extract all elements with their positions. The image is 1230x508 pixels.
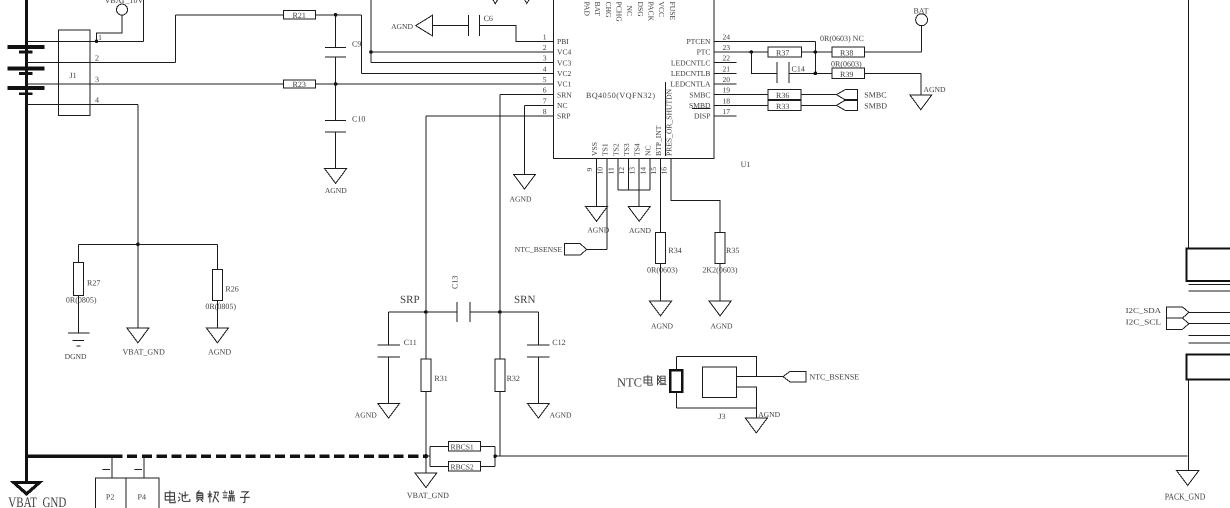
- svg-text:VBAT_GND: VBAT_GND: [8, 495, 66, 508]
- svg-text:0R(0603): 0R(0603): [647, 265, 678, 274]
- svg-text:21: 21: [723, 64, 731, 73]
- svg-text:CHG: CHG: [604, 2, 613, 19]
- svg-text:J3: J3: [718, 412, 725, 421]
- svg-text:AGND: AGND: [208, 348, 231, 357]
- svg-text:NC: NC: [557, 101, 568, 110]
- svg-text:0R(0603): 0R(0603): [831, 59, 862, 68]
- svg-text:TS1: TS1: [601, 143, 610, 156]
- svg-text:2: 2: [95, 54, 99, 63]
- svg-text:VC3: VC3: [557, 58, 572, 67]
- svg-text:15: 15: [649, 167, 658, 175]
- svg-text:R34: R34: [668, 246, 681, 255]
- svg-text:C14: C14: [792, 65, 805, 74]
- svg-text:BQ4050(VQFN32): BQ4050(VQFN32): [586, 91, 655, 100]
- svg-text:19: 19: [723, 86, 731, 95]
- svg-text:AGND: AGND: [355, 411, 377, 420]
- svg-text:R32: R32: [507, 374, 520, 383]
- svg-text:6: 6: [543, 86, 547, 95]
- svg-text:TS2: TS2: [611, 143, 620, 156]
- svg-text:C10: C10: [352, 115, 365, 124]
- svg-text:AGND: AGND: [651, 321, 673, 330]
- svg-text:DGND: DGND: [65, 352, 87, 361]
- svg-text:VBAT_10V: VBAT_10V: [105, 0, 144, 5]
- svg-text:PACK_GND: PACK_GND: [1165, 492, 1206, 502]
- svg-text:R26: R26: [225, 285, 238, 294]
- svg-text:SRP: SRP: [400, 294, 420, 306]
- svg-text:VBAT_GND: VBAT_GND: [123, 348, 165, 357]
- svg-text:10: 10: [596, 167, 605, 175]
- svg-text:R33: R33: [776, 102, 789, 111]
- svg-text:PTC: PTC: [697, 48, 711, 57]
- svg-text:TS3: TS3: [622, 143, 631, 156]
- svg-text:LEDCNTLB: LEDCNTLB: [671, 69, 711, 78]
- svg-text:C12: C12: [552, 338, 565, 347]
- svg-text:R23: R23: [293, 80, 306, 89]
- svg-text:AGND: AGND: [510, 194, 532, 203]
- svg-text:PRES_OR_SHUTDN: PRES_OR_SHUTDN: [665, 88, 674, 156]
- svg-text:R39: R39: [840, 70, 853, 79]
- svg-text:VSS: VSS: [590, 142, 599, 156]
- svg-text:PACK: PACK: [647, 2, 656, 22]
- svg-text:SMBC: SMBC: [689, 90, 710, 99]
- svg-text:NC: NC: [625, 6, 634, 17]
- svg-text:4: 4: [95, 96, 99, 105]
- svg-text:BTP_INT: BTP_INT: [654, 125, 663, 156]
- svg-text:RBCS2: RBCS2: [451, 462, 474, 471]
- svg-text:AGND: AGND: [587, 226, 609, 235]
- svg-text:DISP: DISP: [694, 112, 710, 121]
- svg-text:13: 13: [628, 167, 637, 175]
- svg-text:8: 8: [543, 107, 547, 116]
- svg-text:R21: R21: [293, 11, 306, 20]
- svg-text:LEDCNTLC: LEDCNTLC: [671, 58, 711, 67]
- svg-text:BAT: BAT: [913, 6, 928, 15]
- svg-text:I2C_SCL: I2C_SCL: [1126, 318, 1162, 327]
- svg-text:3: 3: [95, 75, 99, 84]
- svg-text:C9: C9: [352, 40, 361, 49]
- svg-text:4: 4: [543, 64, 547, 73]
- svg-text:NC: NC: [643, 145, 652, 156]
- svg-text:P2: P2: [106, 492, 114, 501]
- svg-text:AGND: AGND: [924, 85, 946, 94]
- svg-text:AGND: AGND: [629, 226, 651, 235]
- svg-text:DSG: DSG: [636, 2, 645, 18]
- svg-text:R37: R37: [776, 49, 789, 58]
- svg-text:5: 5: [543, 75, 547, 84]
- svg-text:R27: R27: [87, 279, 100, 288]
- svg-text:R36: R36: [776, 91, 789, 100]
- svg-text:C11: C11: [404, 338, 417, 347]
- svg-text:TS4: TS4: [633, 143, 642, 156]
- svg-text:NTC_BSENSE: NTC_BSENSE: [515, 245, 563, 254]
- svg-text:PCHG: PCHG: [615, 2, 624, 23]
- svg-text:0R(0805): 0R(0805): [66, 296, 97, 305]
- svg-text:1: 1: [98, 33, 102, 42]
- svg-text:9: 9: [585, 168, 594, 172]
- svg-text:12: 12: [617, 167, 626, 175]
- svg-text:VCC: VCC: [657, 2, 666, 18]
- svg-text:7: 7: [543, 96, 547, 105]
- svg-text:FUSE: FUSE: [668, 2, 677, 21]
- svg-text:2: 2: [543, 43, 547, 52]
- svg-text:PBI: PBI: [557, 37, 569, 46]
- svg-text:SMBC: SMBC: [864, 91, 886, 100]
- svg-text:BAT: BAT: [593, 2, 602, 17]
- svg-text:PTCEN: PTCEN: [686, 37, 711, 46]
- svg-text:RBCS1: RBCS1: [451, 443, 474, 452]
- svg-text:J1: J1: [70, 71, 77, 80]
- svg-text:20: 20: [723, 75, 731, 84]
- svg-text:VC1: VC1: [557, 80, 572, 89]
- svg-text:VC4: VC4: [557, 48, 572, 57]
- svg-text:SRP: SRP: [557, 112, 571, 121]
- svg-text:AGND: AGND: [391, 22, 413, 31]
- svg-text:NTC_BSENSE: NTC_BSENSE: [809, 373, 859, 382]
- svg-text:0R(0805): 0R(0805): [205, 302, 236, 311]
- svg-text:R31: R31: [434, 374, 447, 383]
- svg-text:SRN: SRN: [557, 90, 572, 99]
- svg-text:I2C_SDA: I2C_SDA: [1126, 306, 1162, 315]
- svg-text:PAD: PAD: [583, 2, 592, 17]
- svg-text:U1: U1: [741, 160, 751, 169]
- svg-text:SRN: SRN: [514, 294, 535, 306]
- svg-text:VC2: VC2: [557, 69, 572, 78]
- svg-text:NTC: NTC: [617, 376, 642, 390]
- svg-text:AGND: AGND: [758, 410, 780, 419]
- svg-text:R38: R38: [840, 49, 853, 58]
- svg-text:SMBD: SMBD: [864, 101, 887, 110]
- svg-text:3: 3: [543, 54, 547, 63]
- svg-text:AGND: AGND: [550, 411, 572, 420]
- svg-text:C6: C6: [484, 14, 493, 23]
- svg-text:22: 22: [723, 54, 731, 63]
- svg-text:C13: C13: [451, 276, 460, 289]
- svg-text:AGND: AGND: [325, 186, 347, 195]
- svg-text:LEDCNTLA: LEDCNTLA: [670, 80, 711, 89]
- svg-text:AGND: AGND: [711, 321, 733, 330]
- svg-text:16: 16: [660, 167, 669, 175]
- svg-text:R35: R35: [726, 246, 739, 255]
- svg-text:P4: P4: [138, 492, 146, 501]
- svg-text:23: 23: [723, 43, 731, 52]
- svg-text:17: 17: [723, 107, 731, 116]
- svg-text:18: 18: [723, 96, 731, 105]
- svg-text:1: 1: [543, 32, 547, 41]
- svg-text:0R(0603) NC: 0R(0603) NC: [820, 34, 864, 43]
- svg-text:24: 24: [723, 32, 731, 41]
- svg-text:VBAT_GND: VBAT_GND: [407, 491, 449, 500]
